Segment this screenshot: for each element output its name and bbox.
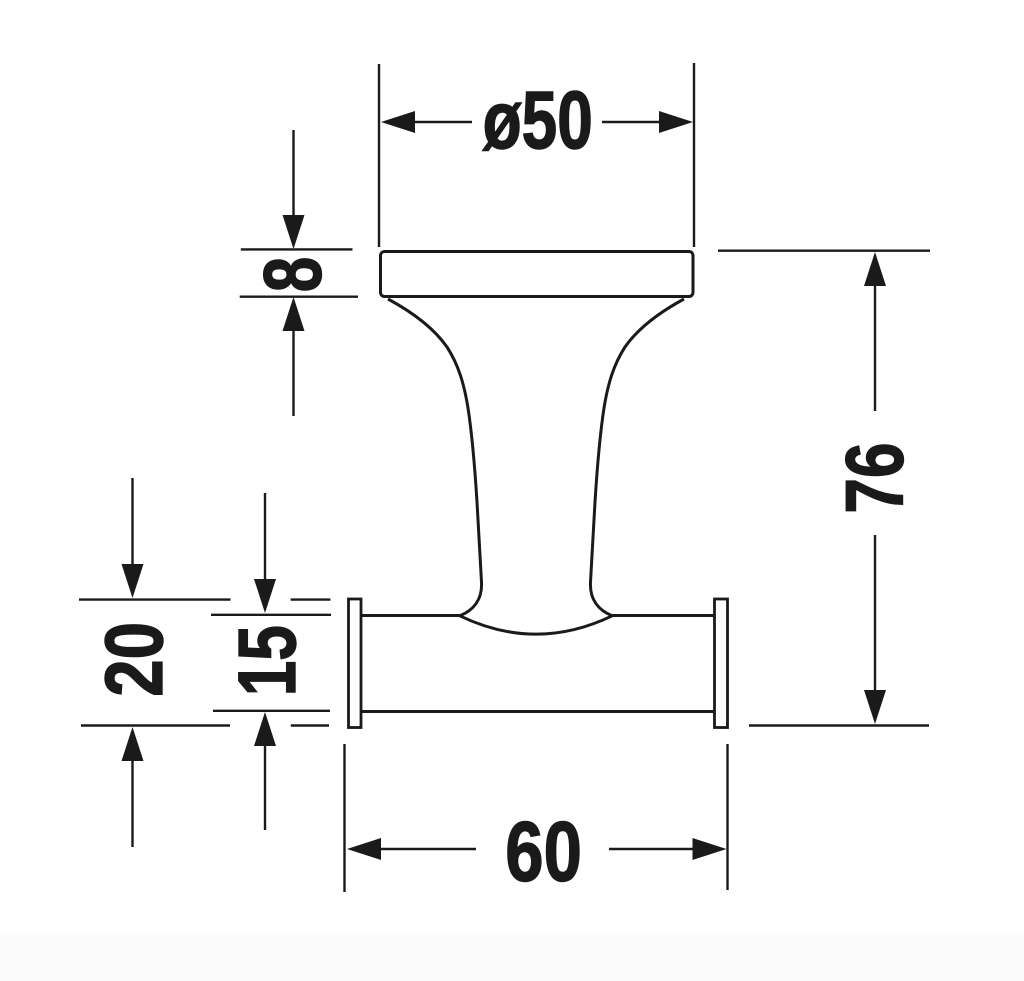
stem-to-bar fillet dip [460, 616, 612, 634]
arrow down [254, 579, 276, 613]
arrow stem above [292, 130, 294, 216]
extension line right [693, 63, 695, 247]
dim line upper [874, 285, 876, 411]
left flange [349, 599, 362, 728]
extension line bottom b [291, 724, 329, 726]
extension line left [378, 64, 380, 247]
extension line top [211, 614, 331, 616]
svg-text:20: 20 [88, 622, 180, 697]
dim line lower [874, 535, 876, 691]
extension line top [241, 248, 353, 250]
arrow stem below [264, 745, 266, 830]
extension line top [718, 249, 930, 251]
extension line bottom [240, 296, 358, 298]
arrow right [693, 838, 727, 860]
right flange [715, 599, 728, 728]
extension line bottom [749, 724, 929, 726]
arrow stem below [292, 330, 294, 416]
dim line left part [380, 848, 476, 850]
arrow down [283, 215, 305, 249]
cap D1 (top disc of hook, side view) [381, 252, 694, 297]
bar bottom line [361, 710, 715, 713]
extension line bottom [213, 710, 330, 712]
arrow up [122, 727, 144, 761]
stem right outline [590, 299, 684, 616]
svg-text:15: 15 [220, 625, 313, 696]
bar top line right segment [612, 614, 714, 617]
arrow stem above [264, 493, 266, 580]
arrow up [283, 297, 305, 331]
extension line left [343, 744, 345, 892]
svg-text:ø50: ø50 [483, 73, 593, 166]
svg-text:8: 8 [246, 257, 339, 293]
extension line top b [291, 598, 331, 600]
arrow left [381, 111, 415, 133]
arrow stem above [131, 478, 133, 565]
bar top line left segment [361, 614, 460, 617]
extension line top a [79, 598, 231, 600]
arrow left [347, 838, 381, 860]
dim line right part [609, 848, 693, 850]
arrow up [864, 252, 886, 286]
dim line left part [414, 121, 472, 123]
svg-text:60: 60 [505, 805, 582, 899]
svg-text:76: 76 [828, 442, 921, 513]
footer band [0, 933, 1024, 981]
arrow right [659, 111, 693, 133]
arrow up [254, 712, 276, 746]
arrow down [864, 690, 886, 724]
extension line right [726, 744, 728, 890]
arrow stem below [131, 760, 133, 847]
dim line right part [602, 121, 660, 123]
stem left outline [388, 299, 482, 616]
arrow down [122, 564, 144, 598]
extension line bottom a [81, 724, 230, 726]
